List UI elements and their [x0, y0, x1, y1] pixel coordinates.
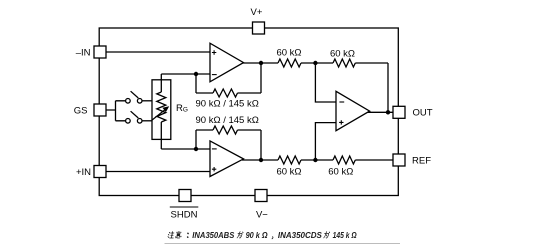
- wire GS pin to switch split: [106, 101, 126, 121]
- IC package boundary: [99, 28, 398, 196]
- svg-text:60 kΩ: 60 kΩ: [328, 166, 353, 177]
- svg-text:60 kΩ: 60 kΩ: [330, 49, 355, 60]
- wire R2 to OUT node: [355, 63, 388, 112]
- pin REF box: [393, 154, 405, 166]
- node R3-R4 junction: [313, 158, 317, 162]
- pin SHDN box: [179, 190, 191, 202]
- footnote fullwidth colon: [187, 233, 190, 237]
- resistor R1 60k: [278, 59, 301, 67]
- node A2 inverting junction: [194, 147, 198, 151]
- svg-text:REF: REF: [412, 155, 431, 166]
- RG variable-resistor arrow: [152, 106, 170, 120]
- svg-text:OUT: OUT: [413, 107, 433, 118]
- svg-text:V−: V−: [256, 210, 268, 221]
- svg-text:90 kΩ / 145 kΩ: 90 kΩ / 145 kΩ: [196, 115, 259, 126]
- resistor RF2 90k/145k: [213, 126, 238, 134]
- pin GS box: [94, 104, 106, 116]
- wire A3 output to OUT pin: [366, 111, 393, 113]
- A1 feedback loop: [196, 63, 261, 93]
- svg-text:INA350ABS: INA350ABS: [192, 231, 234, 240]
- footnote fullwidth comma: [271, 237, 274, 239]
- wire node1 to A3 inverting input: [315, 63, 336, 102]
- wire A1 output: [242, 62, 278, 64]
- pin -IN box: [94, 46, 106, 58]
- wire S2 to RG box: [142, 120, 152, 122]
- footnote zhu: [168, 232, 175, 238]
- footnote rule: [165, 242, 401, 244]
- A2 feedback loop: [196, 130, 261, 160]
- A2 - marker: [212, 148, 217, 150]
- node A1 inverting junction: [194, 72, 198, 76]
- resistor R3 60k: [278, 156, 301, 164]
- wire RG bottom to A2 inverting node: [161, 148, 210, 150]
- A2 + marker: [212, 167, 216, 171]
- A1 - marker: [212, 74, 217, 76]
- node A2 output junction: [259, 158, 263, 162]
- wire S1 to RG box: [142, 100, 152, 102]
- pin V- box: [255, 190, 267, 202]
- RG tap box: [152, 80, 171, 140]
- wire -IN to A1 noninverting input: [106, 51, 210, 53]
- footnote wei (1): [237, 232, 243, 238]
- A3 - marker: [339, 101, 344, 103]
- pin V+ box: [253, 22, 265, 34]
- svg-text:INA350CDS: INA350CDS: [278, 231, 323, 240]
- svg-text:+IN: +IN: [76, 167, 91, 178]
- op-amp A1: [210, 43, 244, 82]
- resistor RF1 90k/145k: [213, 89, 238, 97]
- svg-text:–IN: –IN: [76, 47, 91, 58]
- svg-text:SHDN: SHDN: [171, 210, 198, 221]
- A3 + marker: [339, 120, 343, 124]
- SHDN overline: [170, 206, 199, 208]
- svg-text:145 k Ω: 145 k Ω: [333, 231, 357, 240]
- op-amp A2: [210, 141, 244, 177]
- resistor R4 60k: [333, 156, 355, 164]
- svg-text:GS: GS: [74, 105, 88, 116]
- resistor RG (variable): [157, 74, 166, 149]
- switch S2 (lower gain-select): [126, 111, 142, 123]
- wire R4 to REF pin: [355, 159, 393, 161]
- svg-text:90 k Ω: 90 k Ω: [246, 231, 269, 240]
- switch S1 (upper gain-select): [126, 91, 142, 103]
- node OUT junction: [386, 110, 390, 114]
- footnote yi: [175, 231, 182, 238]
- wire RG top to A1 inverting node: [161, 73, 210, 75]
- pin OUT box: [393, 106, 405, 118]
- svg-text:60 kΩ: 60 kΩ: [276, 166, 301, 177]
- node R1-R2 junction: [313, 61, 317, 65]
- A1 + marker: [212, 50, 216, 54]
- pin +IN box: [94, 166, 106, 178]
- svg-text:V+: V+: [251, 7, 263, 18]
- wire A2 output: [242, 159, 278, 161]
- node A1 output junction: [259, 61, 263, 65]
- wire +IN to A2 noninverting input: [106, 171, 210, 173]
- wire R3 to R4: [301, 159, 333, 161]
- wire R1 to R2: [301, 62, 333, 64]
- footnote wei (2): [324, 232, 330, 238]
- wire node2 to A3 noninverting input: [315, 123, 336, 160]
- op-amp A3: [336, 91, 370, 130]
- svg-text:60 kΩ: 60 kΩ: [276, 47, 301, 58]
- svg-text:90 kΩ / 145 kΩ: 90 kΩ / 145 kΩ: [196, 98, 259, 109]
- resistor R2 60k: [333, 59, 355, 67]
